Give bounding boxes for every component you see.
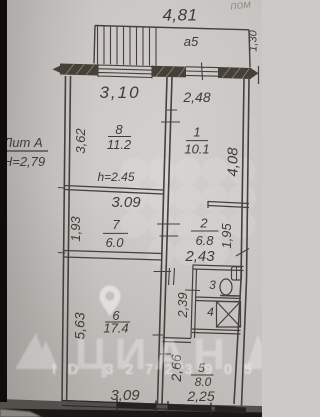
toilet shelf line — [220, 295, 240, 298]
svg-text:6.8: 6.8 — [195, 233, 214, 248]
room 7 bottom wall — [64, 251, 162, 261]
divider wall between columns — [158, 77, 173, 404]
svg-text:Н=2,79: Н=2,79 — [3, 154, 45, 169]
corridor bottom wall — [163, 338, 192, 343]
toilet bowl — [220, 279, 232, 295]
svg-text:11.2: 11.2 — [107, 137, 132, 152]
svg-text:4,08: 4,08 — [225, 147, 242, 177]
svg-text:8: 8 — [115, 122, 123, 137]
vent box with X in room 4 — [217, 302, 241, 328]
svg-text:2,43: 2,43 — [184, 248, 215, 265]
balcony right edge — [249, 30, 250, 68]
svg-text:1: 1 — [193, 125, 200, 140]
bottom wall redrawn over band — [62, 399, 236, 415]
svg-text:1,95: 1,95 — [219, 223, 234, 249]
door leaf lines in corridor — [169, 268, 175, 285]
bottom wall lines — [62, 399, 236, 415]
bottom wall dark segments — [117, 403, 156, 410]
svg-text:3: 3 — [209, 278, 216, 292]
hatch texture on dark walls — [66, 64, 249, 411]
left dimension arrow — [53, 65, 63, 74]
watermark pin icon — [100, 286, 121, 317]
svg-text:h=2.45: h=2.45 — [97, 170, 134, 184]
svg-text:пом: пом — [230, 0, 252, 13]
balcony left edge — [94, 26, 95, 64]
top wall dark segment middle — [152, 66, 186, 78]
toilet tank — [232, 267, 242, 280]
svg-text:10.1: 10.1 — [184, 142, 209, 157]
watermark logo mark right edge — [246, 334, 262, 369]
svg-text:2,48: 2,48 — [182, 89, 210, 105]
watermark logo mark left — [15, 333, 58, 369]
bathroom bottom wall — [192, 329, 241, 334]
tick outside left wall at room 8 wall — [58, 187, 66, 190]
left outer wall — [62, 76, 71, 404]
balcony railing hatch — [98, 26, 157, 66]
svg-text:4,81: 4,81 — [162, 6, 197, 25]
svg-text:2,25: 2,25 — [186, 388, 214, 404]
svg-text:6.0: 6.0 — [105, 235, 124, 250]
bottom-left light wedge — [0, 409, 42, 417]
svg-text:2: 2 — [199, 216, 208, 231]
wall between rooms 3 and 4 — [196, 297, 241, 302]
dark wall fills — [53, 64, 259, 414]
top wall dark segment left — [60, 64, 98, 76]
right side dimension cap line — [258, 66, 260, 84]
divider door ticks — [153, 110, 181, 354]
room 1 bottom wall piece — [208, 201, 249, 208]
window in top wall left — [98, 64, 152, 79]
svg-text:3.09: 3.09 — [111, 194, 141, 211]
svg-text:3,10: 3,10 — [99, 83, 140, 102]
right outer wall — [234, 79, 249, 406]
svg-text:2,39: 2,39 — [175, 292, 190, 318]
bathroom left wall — [191, 265, 197, 338]
watermark circles — [121, 158, 256, 266]
balcony top edge — [95, 26, 249, 30]
plan lines — [58, 26, 259, 416]
right dimension arrow — [251, 68, 259, 78]
black left edge strip — [0, 0, 7, 402]
svg-text:1,30: 1,30 — [248, 29, 260, 51]
svg-text:Лит А: Лит А — [2, 135, 42, 150]
svg-text:а5: а5 — [184, 34, 199, 49]
room 8 bottom wall — [64, 186, 163, 195]
bathroom top wall — [193, 265, 244, 271]
svg-text:1,93: 1,93 — [68, 216, 83, 242]
pen stroke near room 2 door — [236, 249, 249, 257]
dimension tick on bathroom left wall — [185, 289, 200, 292]
svg-text:3,62: 3,62 — [73, 128, 88, 154]
top wall dark segment right — [218, 67, 251, 79]
underline under Лит А — [0, 150, 48, 152]
svg-text:3,09: 3,09 — [110, 387, 140, 404]
tick outside left wall at room 7 wall — [58, 252, 66, 255]
svg-text:4: 4 — [207, 305, 214, 319]
window in top wall right — [186, 63, 218, 81]
svg-text:7: 7 — [112, 217, 120, 232]
photo dark bottom band — [0, 399, 262, 417]
